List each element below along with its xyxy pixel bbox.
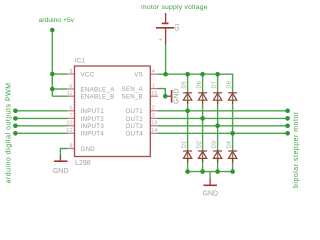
wire: OUT1 to motor xyxy=(158,110,288,112)
pin stub OUT4 14 xyxy=(150,132,158,134)
wire: diode column D6/D2 xyxy=(202,74,204,171)
wire: OUT2 to motor xyxy=(158,117,288,119)
node: OUT2 motor port xyxy=(285,116,290,121)
diode D7 xyxy=(213,93,222,104)
svg-text:INPUT3: INPUT3 xyxy=(81,123,105,130)
svg-text:INPUT4: INPUT4 xyxy=(81,131,105,138)
svg-text:OUT3: OUT3 xyxy=(125,123,143,130)
svg-text:D3: D3 xyxy=(212,141,218,148)
node: arduino +5v port xyxy=(50,28,55,33)
svg-text:ENABLE_B: ENABLE_B xyxy=(81,94,115,101)
node: OUT3 motor port xyxy=(285,124,290,129)
diode D3 xyxy=(213,151,222,162)
wire: +5v vertical rail xyxy=(51,30,53,96)
svg-text:motor supply voltage: motor supply voltage xyxy=(141,4,208,11)
pin stub OUT2 3 xyxy=(150,117,158,119)
wire: INPUT3 stub xyxy=(15,125,67,127)
node: OUT1 / column junction xyxy=(185,109,190,114)
wire: +5v to ENABLE_B xyxy=(52,95,67,97)
svg-text:G1: G1 xyxy=(175,23,181,31)
node: top rail / D6 junction xyxy=(200,72,205,77)
diode D8 xyxy=(228,93,237,104)
pin stub INPUT4 12 xyxy=(67,132,75,134)
wire: bottom diode rail xyxy=(188,171,233,173)
svg-text:arduino +5v: arduino +5v xyxy=(39,17,75,24)
svg-text:9: 9 xyxy=(69,69,72,75)
svg-text:11: 11 xyxy=(67,91,73,97)
svg-text:GND: GND xyxy=(53,168,69,175)
svg-text:13: 13 xyxy=(151,121,157,127)
svg-text:GND: GND xyxy=(81,146,96,153)
svg-text:D6: D6 xyxy=(197,81,203,88)
pin stub ENABLE_B 11 xyxy=(67,95,75,97)
svg-text:3: 3 xyxy=(152,113,155,119)
svg-text:D1: D1 xyxy=(182,141,188,148)
svg-text:4: 4 xyxy=(152,69,155,75)
svg-text:D8: D8 xyxy=(227,81,233,88)
svg-text:OUT2: OUT2 xyxy=(125,116,143,123)
svg-text:GND: GND xyxy=(174,88,181,104)
svg-text:12: 12 xyxy=(66,128,72,134)
svg-text:bipolar stepper motor: bipolar stepper motor xyxy=(293,111,300,188)
svg-text:6: 6 xyxy=(69,84,72,90)
node: bottom rail / D1 xyxy=(185,169,190,174)
node: bottom rail / D4 xyxy=(230,169,235,174)
node: OUT3 / column junction xyxy=(215,124,220,129)
node: top rail / D7 junction xyxy=(215,72,220,77)
battery top pin xyxy=(165,13,167,23)
svg-text:VCC: VCC xyxy=(81,71,95,78)
node: bottom rail / D3 xyxy=(215,169,220,174)
svg-text:SEN_B: SEN_B xyxy=(121,94,143,101)
wire: OUT3 to motor xyxy=(158,125,288,127)
svg-text:SEN_A: SEN_A xyxy=(121,86,143,93)
svg-text:VS: VS xyxy=(134,71,143,78)
ground symbol (left, IC GND) xyxy=(53,156,69,176)
node: INPUT3 port xyxy=(13,124,18,129)
wire: battery to VS rail xyxy=(165,44,167,75)
battery long plate xyxy=(156,27,174,29)
battery bottom pin xyxy=(165,29,167,45)
node: +5v/VCC junction xyxy=(50,72,55,77)
wire: SEN_A/SEN_B to ground xyxy=(158,89,169,97)
svg-text:D5: D5 xyxy=(182,81,188,88)
pin stub INPUT1 5 xyxy=(67,110,75,112)
wire: bottom rail to ground xyxy=(209,172,211,179)
wire: +5v to ENABLE_A xyxy=(52,88,67,90)
svg-text:D4: D4 xyxy=(227,140,233,148)
battery G1 xyxy=(156,13,174,44)
pin stub INPUT3 10 xyxy=(67,125,75,127)
ground symbol (sense, rotated) xyxy=(168,88,181,104)
node: bottom rail / D2 xyxy=(200,169,205,174)
svg-text:L298: L298 xyxy=(75,160,91,167)
diode D4 xyxy=(228,151,237,162)
svg-text:OUT4: OUT4 xyxy=(125,131,143,138)
wire: INPUT1 stub xyxy=(15,110,67,112)
ground symbol (bottom, diode rail) xyxy=(203,179,219,198)
diode D1 xyxy=(183,151,192,162)
svg-text:IC1: IC1 xyxy=(75,58,86,65)
pin stub SEN_A 1 xyxy=(150,88,158,90)
svg-text:1: 1 xyxy=(152,83,155,89)
svg-text:14: 14 xyxy=(151,128,157,134)
svg-text:+: + xyxy=(159,38,162,44)
svg-text:8: 8 xyxy=(69,143,72,149)
node: +5v/ENABLE_A junction xyxy=(50,87,55,92)
pin stub OUT3 13 xyxy=(150,125,158,127)
wire: INPUT4 stub xyxy=(15,132,67,134)
svg-text:INPUT1: INPUT1 xyxy=(81,108,105,115)
wire: diode column D7/D3 xyxy=(217,74,219,171)
node: SEN_A/SEN_B junction xyxy=(163,94,168,99)
IC IC1 L298 body xyxy=(75,66,151,157)
pin stub ENABLE_A 6 xyxy=(67,88,75,90)
diode D2 xyxy=(198,151,207,162)
svg-text:D7: D7 xyxy=(212,81,218,88)
svg-text:ENABLE_A: ENABLE_A xyxy=(81,86,116,93)
node: INPUT4 port xyxy=(13,131,18,136)
node: OUT4 / column junction xyxy=(230,131,235,136)
svg-text:arduino digital outputs PWM: arduino digital outputs PWM xyxy=(6,82,13,183)
svg-text:OUT1: OUT1 xyxy=(125,108,143,115)
svg-text:10: 10 xyxy=(66,121,72,127)
node: OUT4 motor port xyxy=(285,131,290,136)
svg-text:INPUT2: INPUT2 xyxy=(81,116,105,123)
pin stub SEN_B 15 xyxy=(150,95,158,97)
pin stub GND 8 xyxy=(67,148,75,150)
pin stub VS 4 xyxy=(150,73,158,75)
wire: OUT4 to motor xyxy=(158,132,288,134)
svg-text:15: 15 xyxy=(151,91,157,97)
pin stub OUT1 2 xyxy=(150,110,158,112)
svg-text:2: 2 xyxy=(152,106,155,112)
pin stub VCC 9 xyxy=(67,73,75,75)
battery short plate xyxy=(162,22,169,24)
diode D5 xyxy=(183,93,192,104)
svg-text:GND: GND xyxy=(203,191,219,198)
node: top rail / D5 junction xyxy=(185,72,190,77)
diode D6 xyxy=(198,93,207,104)
pin stub INPUT2 7 xyxy=(67,117,75,119)
wire: INPUT2 stub xyxy=(15,117,67,119)
node: INPUT2 port xyxy=(13,116,18,121)
svg-text:7: 7 xyxy=(69,113,72,119)
node: OUT2 / column junction xyxy=(200,116,205,121)
svg-text:5: 5 xyxy=(69,106,72,112)
wire: top supply rail xyxy=(158,74,233,171)
node: OUT1 motor port xyxy=(285,109,290,114)
svg-text:D2: D2 xyxy=(197,141,203,148)
wire: GND pin to ground symbol xyxy=(60,149,67,157)
wire: diode column D5/D1 xyxy=(187,74,189,171)
node: VS/battery junction xyxy=(163,72,168,77)
wire: +5v to VCC xyxy=(52,73,67,75)
node: INPUT1 port xyxy=(13,109,18,114)
